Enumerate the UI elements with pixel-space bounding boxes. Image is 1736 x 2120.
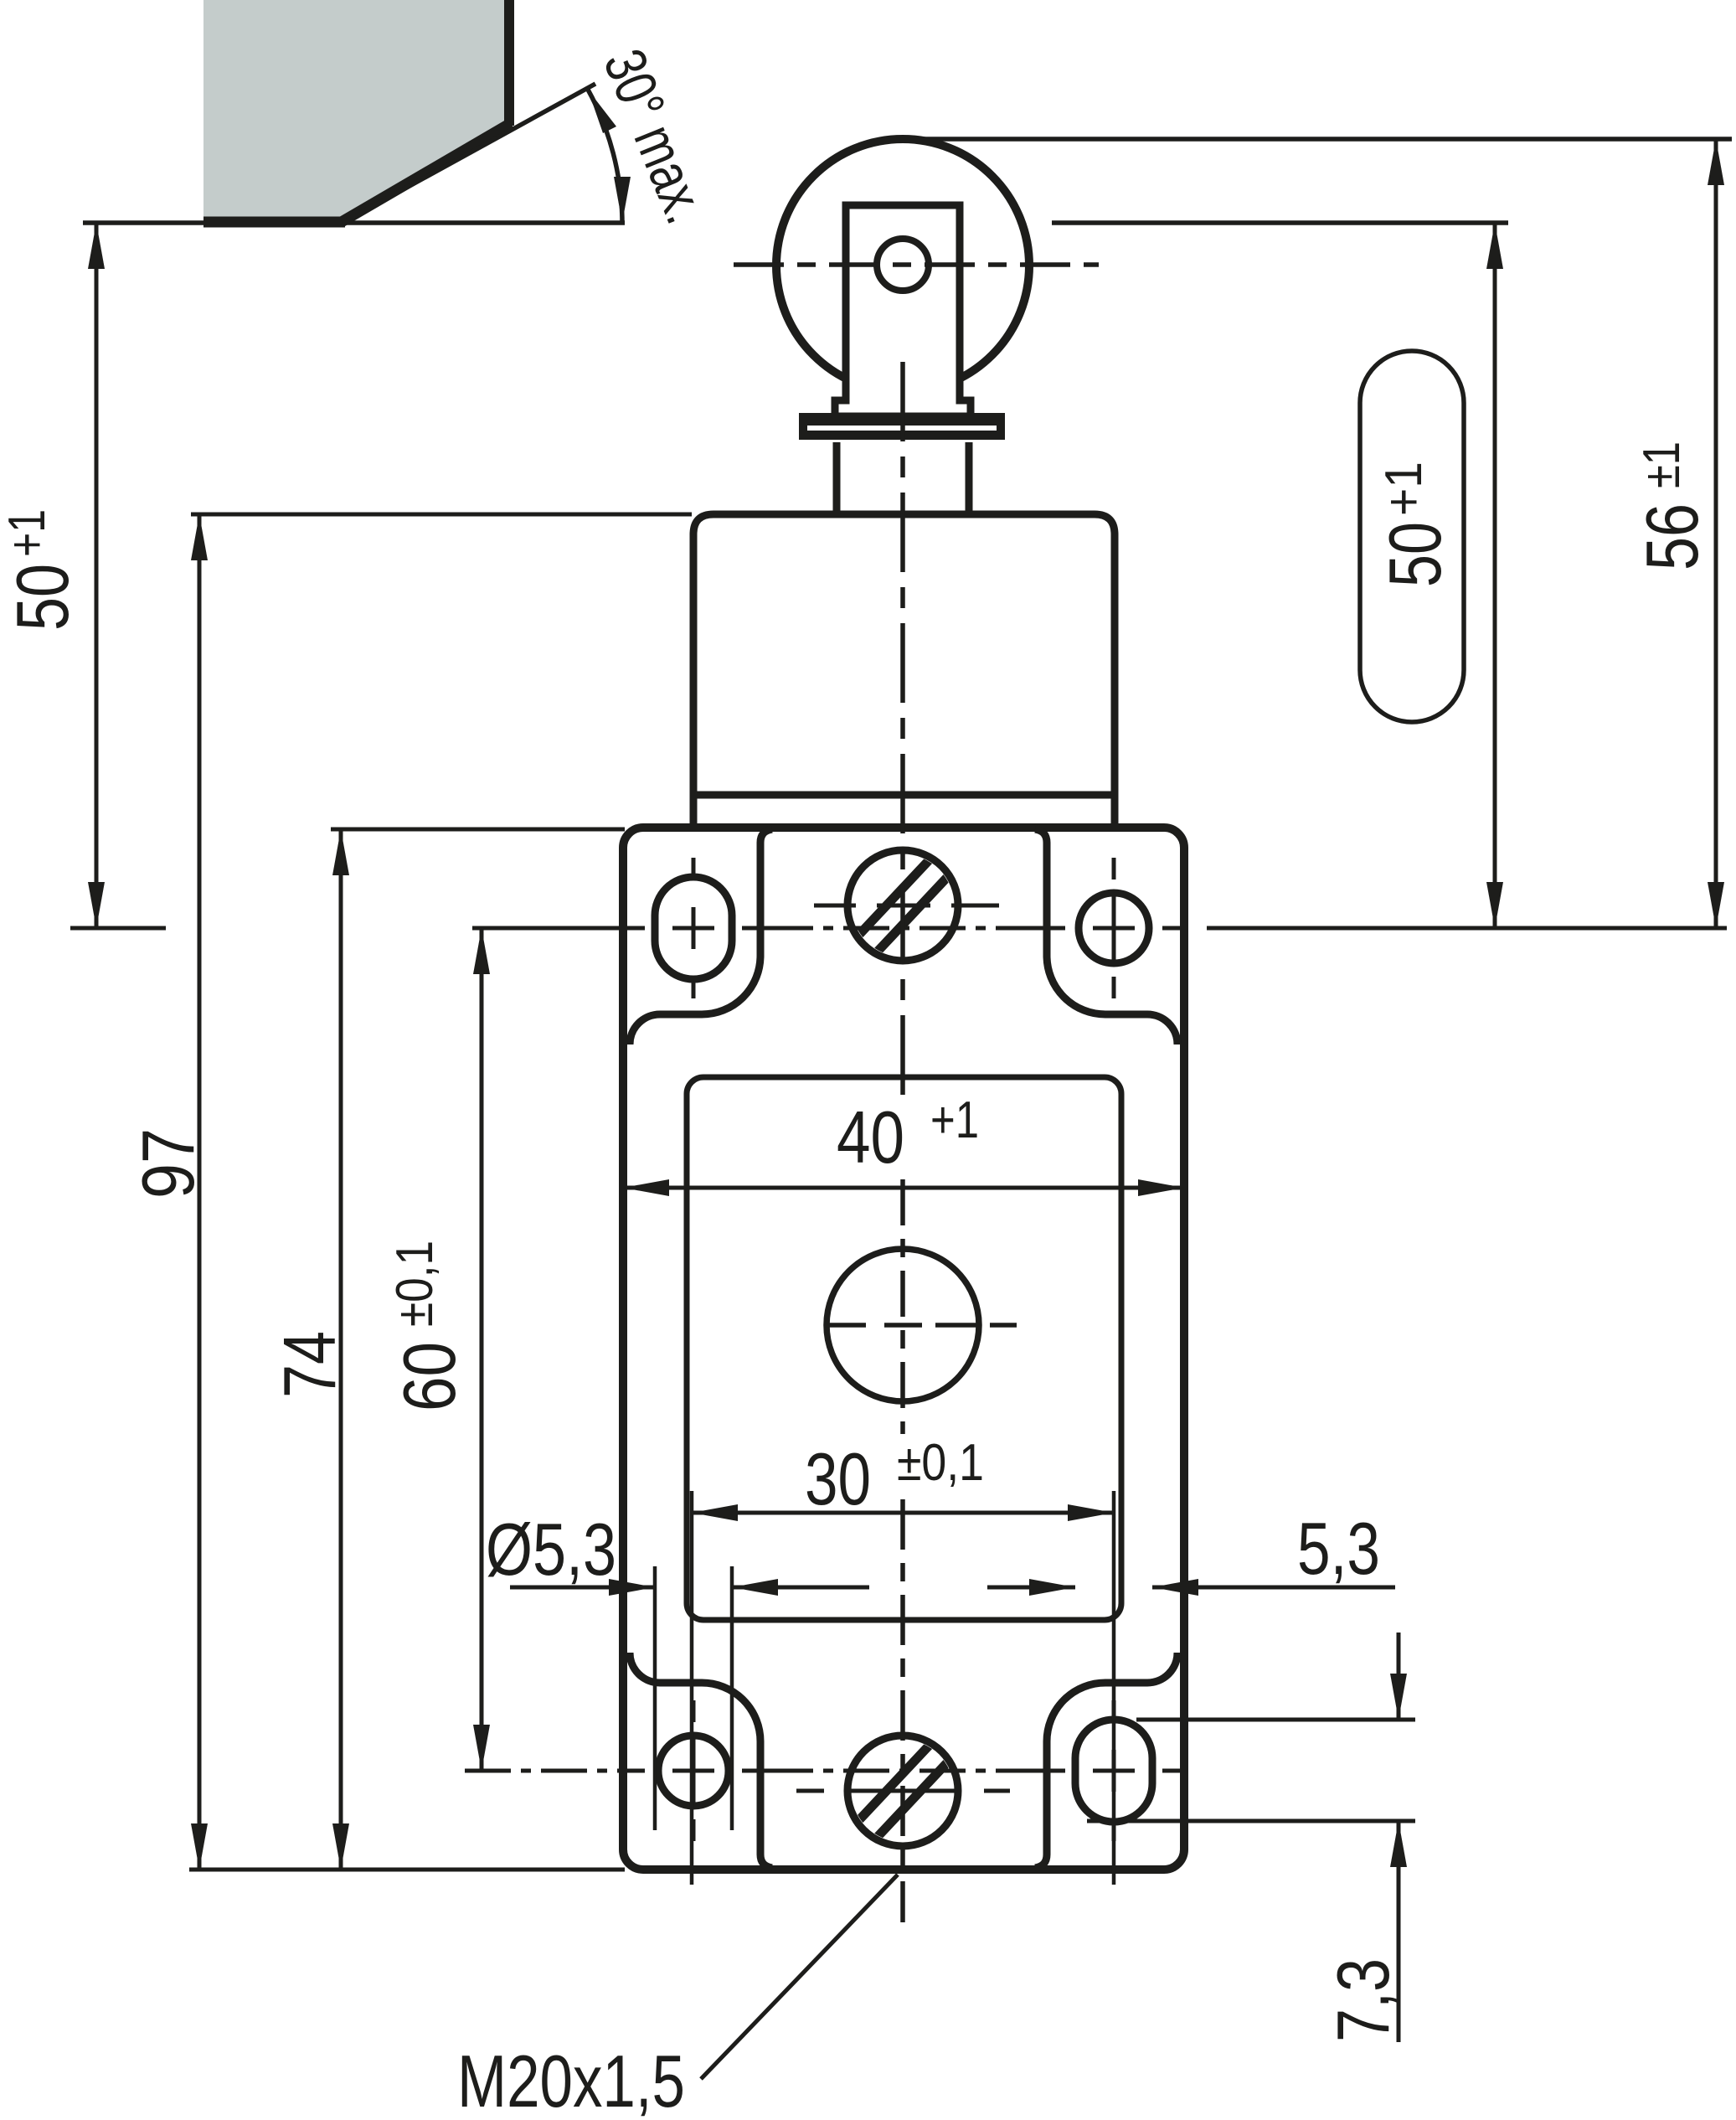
svg-text:±0,1: ±0,1 — [897, 1434, 984, 1492]
svg-text:7,3: 7,3 — [1321, 1958, 1404, 2042]
svg-text:+1: +1 — [1375, 462, 1433, 516]
svg-text:56: 56 — [1630, 503, 1713, 570]
svg-text:50: 50 — [1373, 522, 1456, 587]
svg-text:Ø5,3: Ø5,3 — [486, 1508, 616, 1591]
svg-text:5,3: 5,3 — [1297, 1507, 1380, 1590]
svg-text:30: 30 — [805, 1437, 871, 1520]
svg-text:97: 97 — [126, 1128, 209, 1199]
svg-text:M20x1,5: M20x1,5 — [457, 2040, 685, 2120]
svg-text:+1: +1 — [930, 1091, 979, 1149]
svg-text:50: 50 — [1, 564, 84, 631]
svg-text:60: 60 — [388, 1342, 471, 1411]
svg-text:+1: +1 — [0, 509, 56, 557]
svg-text:±1: ±1 — [1633, 441, 1691, 488]
svg-text:±0,1: ±0,1 — [386, 1241, 444, 1327]
svg-text:40: 40 — [837, 1096, 904, 1179]
svg-text:74: 74 — [268, 1331, 351, 1398]
